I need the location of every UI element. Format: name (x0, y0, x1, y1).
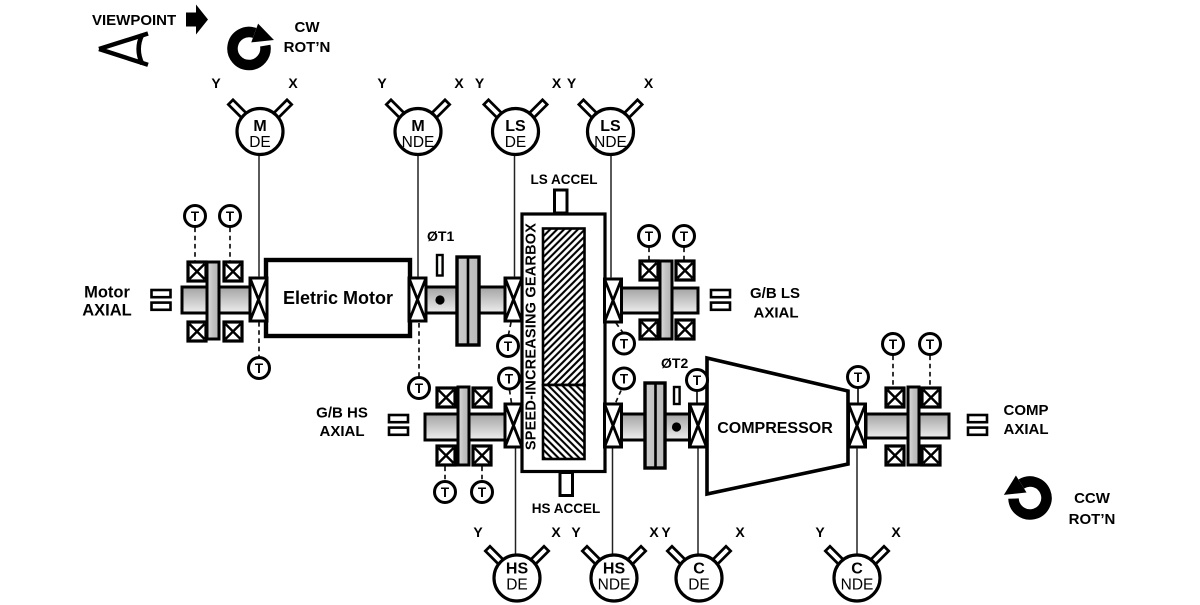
svg-text:CW: CW (295, 19, 321, 36)
proximity probe pair C DE (X/Y) (661, 524, 745, 601)
HS accelerometer stub (560, 473, 573, 496)
svg-text:SPEED-INCREASING GEARBOX: SPEED-INCREASING GEARBOX (524, 223, 540, 450)
label G/B LS AXIAL (750, 285, 800, 322)
svg-text:X: X (551, 524, 561, 540)
coupling 2 (gearbox to compressor) (645, 383, 665, 468)
bearing RTD box (G/B LS lower left) (640, 320, 658, 339)
svg-text:ROT’N: ROT’N (284, 39, 331, 56)
svg-text:Y: Y (473, 524, 483, 540)
coupling 1 (motor to gearbox) (457, 257, 479, 345)
thrust collar (G/B HS) (458, 387, 469, 465)
svg-text:AXIAL: AXIAL (754, 305, 799, 322)
signal line (M NDE probe) (417, 155, 419, 278)
bearing RTD box (motor DE lower left) (188, 322, 206, 341)
proximity probe pair LS NDE (X/Y) (567, 75, 654, 155)
dashed sensor line (G/B LS T right) (683, 248, 685, 260)
journal bearing (compressor DE) (690, 404, 707, 447)
bearing RTD box (G/B LS upper right) (676, 261, 694, 280)
svg-text:ØT2: ØT2 (661, 355, 688, 371)
svg-text:C: C (693, 561, 705, 578)
viewpoint direction arrow (186, 5, 208, 35)
svg-text:X: X (552, 75, 562, 91)
temperature sensor T (comp NDE brg left) (883, 334, 904, 355)
temperature sensor T (motor DE bearing) (249, 358, 270, 379)
label CCW ROT'N (1069, 490, 1116, 528)
svg-text:Eletric Motor: Eletric Motor (283, 288, 393, 308)
signal line (C NDE probe) (856, 448, 858, 556)
svg-text:Y: Y (571, 524, 581, 540)
LS accelerometer stub (555, 190, 568, 213)
svg-text:DE: DE (506, 577, 528, 594)
proximity probe pair M DE (X/Y) (211, 75, 298, 155)
shaft (motor NDE to gearbox shaft) (425, 287, 508, 313)
bearing RTD box (G/B LS upper left) (640, 261, 658, 280)
shaft (gearbox HS DE stub shaft) (425, 414, 508, 440)
bearing RTD box (G/B HS lower right) (473, 446, 491, 465)
gearbox gear internals (upper hatched) (543, 229, 585, 386)
axial position probes (compressor) (968, 415, 987, 435)
journal bearing (gearbox LS NDE) (605, 279, 622, 322)
svg-text:Y: Y (211, 75, 221, 91)
svg-text:COMP: COMP (1004, 402, 1049, 419)
svg-text:HS: HS (603, 561, 626, 578)
svg-text:G/B LS: G/B LS (750, 285, 800, 302)
proximity probe pair LS DE (X/Y) (475, 75, 562, 155)
temperature sensor T (compressor NDE bearing) (848, 367, 869, 388)
thrust collar (G/B LS) (660, 261, 672, 339)
journal bearing (gearbox HS DE) (505, 404, 522, 447)
svg-text:DE: DE (249, 134, 271, 151)
proximity probe pair C NDE (X/Y) (815, 524, 901, 601)
CCW rotation arrow (999, 469, 1050, 521)
temperature sensor T (gearbox LS NDE bearing) (614, 333, 635, 354)
thrust collar (compressor NDE) (908, 387, 919, 465)
svg-text:X: X (735, 524, 745, 540)
sensor line (compressor DE bearing T) (696, 391, 698, 403)
dashed sensor line (comp NDE T left) (892, 356, 894, 387)
dashed sensor line (G/B HS T left) (444, 467, 446, 481)
journal bearing (motor DE) (250, 278, 267, 321)
svg-text:C: C (851, 561, 863, 578)
svg-text:X: X (288, 75, 298, 91)
svg-text:LS ACCEL: LS ACCEL (531, 172, 598, 187)
svg-text:AXIAL: AXIAL (1004, 421, 1049, 438)
signal line (LS NDE probe) (610, 155, 612, 279)
dashed sensor line (G/B HS T right) (481, 467, 483, 481)
dashed sensor line (gearbox LS NDE bearing T) (616, 323, 623, 332)
label CW ROT'N (284, 19, 331, 56)
dashed sensor line (comp NDE T right) (929, 356, 931, 387)
coupling key dot (compressor side) (672, 422, 681, 431)
signal line (M DE probe) (258, 155, 260, 278)
label Motor AXIAL (82, 284, 132, 320)
svg-text:LS: LS (600, 118, 621, 135)
dashed sensor line (gearbox LS DE bearing T) (509, 323, 512, 335)
compressor body (707, 358, 848, 494)
temperature sensor T (compressor DE bearing) (687, 370, 708, 391)
proximity probe pair HS NDE (X/Y) (571, 524, 659, 601)
svg-text:CCW: CCW (1074, 490, 1111, 507)
bearing RTD box (motor DE lower right) (224, 322, 242, 341)
svg-text:AXIAL: AXIAL (320, 423, 365, 440)
dashed sensor line (gearbox HS NDE bearing T) (616, 391, 622, 404)
svg-text:X: X (454, 75, 464, 91)
svg-text:DE: DE (505, 134, 527, 151)
svg-text:HS ACCEL: HS ACCEL (532, 501, 601, 516)
svg-text:NDE: NDE (598, 577, 631, 594)
signal line (LS DE probe) (514, 155, 516, 278)
svg-text:LS: LS (505, 118, 526, 135)
gearbox gear internals (lower hatched) (543, 385, 585, 459)
label COMP AXIAL (1004, 402, 1049, 438)
bearing RTD box (comp NDE upper right) (922, 388, 940, 407)
proximity probe pair M NDE (X/Y) (377, 75, 464, 155)
electric motor body (266, 260, 410, 336)
bearing RTD box (G/B HS upper right) (473, 388, 491, 407)
thrust collar (motor DE) (207, 262, 219, 339)
axial position probes (G/B LS) (711, 290, 730, 310)
shaft (motor DE stub shaft) (182, 287, 252, 313)
bearing RTD box (comp NDE lower right) (922, 446, 940, 465)
svg-text:X: X (891, 524, 901, 540)
viewpoint eye symbol (99, 34, 148, 65)
svg-text:M: M (253, 118, 266, 135)
dashed sensor line (motor DE T right) (229, 228, 231, 261)
temperature sensor T (comp NDE brg right) (920, 334, 941, 355)
dashed sensor line (motor DE bearing T) (258, 322, 260, 357)
temperature sensor T (gearbox LS DE bearing) (498, 336, 519, 357)
bearing RTD box (G/B HS upper left) (437, 388, 455, 407)
bearing RTD box (motor DE upper left) (188, 262, 206, 281)
svg-text:Y: Y (475, 75, 485, 91)
signal line (HS DE probe) (515, 449, 517, 556)
phase probe stub OT2 (674, 387, 680, 404)
temperature sensor T (G/B HS brg right) (472, 482, 493, 503)
signal line (HS NDE probe) (612, 449, 614, 556)
svg-text:AXIAL: AXIAL (82, 302, 132, 320)
shaft (gearbox HS NDE to compressor shaft) (620, 414, 690, 440)
dashed sensor line (motor NDE bearing T) (418, 323, 420, 377)
svg-text:DE: DE (688, 577, 710, 594)
gearbox housing (522, 214, 605, 472)
bearing RTD box (comp NDE upper left) (886, 388, 904, 407)
svg-text:Y: Y (815, 524, 825, 540)
axial position probes (motor) (152, 290, 171, 310)
sensor line (compressor NDE bearing T) (857, 388, 859, 403)
dashed sensor line (gearbox HS DE bearing T) (510, 390, 512, 403)
svg-text:NDE: NDE (594, 134, 627, 151)
label G/B HS AXIAL (316, 405, 368, 441)
temperature sensor T (motor DE brg right) (220, 206, 241, 227)
dashed sensor line (G/B LS T left) (648, 248, 650, 260)
axial position probes (G/B HS) (389, 415, 408, 435)
coupling key dot (motor side) (435, 295, 444, 304)
temperature sensor T (motor NDE bearing) (409, 378, 430, 399)
svg-text:NDE: NDE (402, 134, 435, 151)
svg-text:ROT’N: ROT’N (1069, 511, 1116, 528)
dashed sensor line (motor DE T left) (194, 228, 196, 261)
journal bearing (motor NDE) (409, 278, 426, 321)
signal line (C DE probe) (697, 449, 699, 556)
svg-text:COMPRESSOR: COMPRESSOR (717, 420, 833, 437)
svg-text:Y: Y (567, 75, 577, 91)
svg-text:Motor: Motor (84, 284, 130, 302)
svg-text:G/B HS: G/B HS (316, 405, 368, 422)
svg-text:ØT1: ØT1 (427, 228, 454, 244)
temperature sensor T (motor DE brg left) (185, 206, 206, 227)
svg-text:VIEWPOINT: VIEWPOINT (92, 12, 176, 29)
temperature sensor T (G/B HS brg left) (435, 482, 456, 503)
journal bearing (compressor NDE) (849, 404, 866, 447)
journal bearing (gearbox HS NDE) (605, 404, 622, 447)
svg-text:Y: Y (377, 75, 387, 91)
temperature sensor T (G/B LS brg left) (639, 226, 660, 247)
svg-text:HS: HS (506, 561, 529, 578)
temperature sensor T (G/B LS brg right) (674, 226, 695, 247)
svg-text:X: X (649, 524, 659, 540)
CW rotation arrow (231, 22, 275, 67)
bearing RTD box (G/B LS lower right) (676, 320, 694, 339)
temperature sensor T (gearbox HS DE bearing) (499, 368, 520, 389)
bearing RTD box (comp NDE lower left) (886, 446, 904, 465)
bearing RTD box (motor DE upper right) (224, 262, 242, 281)
phase probe stub OT1 (437, 255, 443, 276)
svg-text:Y: Y (661, 524, 671, 540)
svg-text:NDE: NDE (841, 577, 874, 594)
proximity probe pair HS DE (X/Y) (473, 524, 561, 601)
shaft (compressor NDE stub shaft) (866, 414, 949, 438)
svg-text:X: X (644, 75, 654, 91)
svg-text:M: M (411, 118, 424, 135)
shaft (gearbox LS NDE stub shaft) (620, 288, 698, 313)
temperature sensor T (gearbox HS NDE bearing) (614, 368, 635, 389)
journal bearing (gearbox LS DE) (505, 278, 522, 321)
bearing RTD box (G/B HS lower left) (437, 446, 455, 465)
